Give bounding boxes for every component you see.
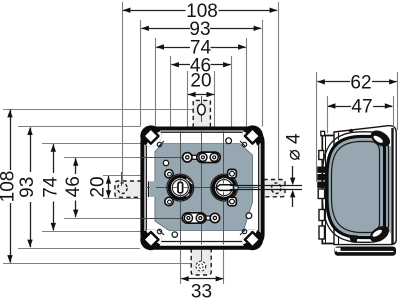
- pilot hole left: [163, 160, 168, 165]
- dimension 33 extension lines: [180, 250, 182, 284]
- left gland center line vertical: [180, 131, 182, 245]
- left cable entry center line: [121, 172, 123, 186]
- side view lid screw top-right: [368, 127, 393, 150]
- corner detail marks: [158, 141, 164, 147]
- left gland slot: [178, 182, 183, 192]
- top cable entry knockout ellipse: [198, 104, 206, 115]
- dimension 62 extension lines: [316, 72, 318, 182]
- left gland center line segments: [180, 178, 182, 182]
- svg-text:74: 74: [41, 176, 62, 198]
- right gland center line segments: [223, 177, 225, 184]
- front view lid recess (gray): [155, 144, 253, 231]
- svg-text:⌀ 4: ⌀ 4: [284, 133, 305, 161]
- side view wall tabs (black): [317, 167, 326, 173]
- dimension 46 top extension lines: [170, 56, 172, 127]
- dimension 74 left extension lines: [42, 143, 155, 145]
- pilot hole top-right: [226, 138, 232, 144]
- side view dome bottom clamp: [348, 235, 358, 244]
- dimension 20 left line and arrows: [108, 176, 110, 198]
- side view lid screw bottom-right: [367, 223, 392, 246]
- pilot hole bottom-right: [246, 213, 252, 219]
- bottom cable entry dashed rectangle: [191, 249, 211, 276]
- gland center line horizontal: [146, 187, 259, 189]
- side view lid right edge: [391, 128, 393, 244]
- dimension 108 left line and arrows: [10, 110, 12, 170]
- right gland knockout ring: [211, 174, 238, 201]
- knockout row reference lines: [141, 157, 183, 159]
- side view lid outer rim: [334, 126, 396, 245]
- corner screw housings: [140, 125, 161, 146]
- dimension 46 left extension lines: [64, 157, 182, 159]
- side view lid dome (gray): [326, 139, 391, 236]
- entry center line vertical through box: [201, 131, 203, 245]
- pilot hole bottom-left: [172, 232, 177, 237]
- top cable entry dashed rectangle: [193, 100, 210, 127]
- dimension 47 extension lines: [327, 96, 329, 133]
- svg-text:47: 47: [351, 97, 372, 118]
- top knockout cluster: [186, 155, 198, 159]
- svg-text:20: 20: [88, 176, 109, 197]
- svg-text:93: 93: [17, 177, 38, 198]
- dimension 74 top line and arrows: [156, 47, 190, 49]
- right gland center line vertical: [223, 131, 225, 245]
- dimension 93 left line and arrows: [30, 127, 32, 172]
- top cable entry center line: [201, 96, 203, 122]
- left entry groove notch in recess: [150, 181, 157, 197]
- slot edge lines to diameter-4 callout: [230, 185, 302, 187]
- dimension 93 top line and arrows: [141, 28, 190, 30]
- front view outer wall: [142, 129, 262, 248]
- svg-text:46: 46: [63, 176, 84, 197]
- svg-text:33: 33: [191, 282, 212, 302]
- side view dome outer contour: [323, 132, 389, 243]
- side view mounting tab bottom: [319, 226, 325, 239]
- dimension 74 left line and arrows: [53, 144, 55, 173]
- dimension 33 line and arrows: [181, 278, 223, 280]
- svg-text:20: 20: [190, 71, 211, 92]
- dimension 46 left line and arrows: [75, 158, 77, 174]
- right gland slot with pointed end: [216, 185, 234, 191]
- bottom cable entry center line: [201, 250, 203, 261]
- dimension 74 top extension lines: [155, 38, 157, 127]
- right gland screws: [228, 169, 237, 178]
- corner screw caps: [143, 128, 158, 143]
- left gland screws: [165, 170, 173, 178]
- front view lid inner edge: [146, 132, 258, 241]
- dimension 20 top extension lines: [187, 71, 189, 127]
- dimension 20 left extension lines: [103, 175, 142, 177]
- dimension 93 top extension lines: [140, 20, 142, 127]
- right cable entry dashed rectangle: [263, 180, 285, 197]
- side view mounting tab middle: [319, 210, 325, 221]
- side view base/lid seam bottom: [338, 236, 340, 244]
- dimension 93 left extension lines: [18, 126, 140, 128]
- dimension 20 top line and arrows: [188, 94, 214, 96]
- side view dome inner contour: [332, 142, 380, 233]
- left gland knockout ring: [167, 174, 194, 201]
- side view bottom flange: [335, 247, 397, 256]
- dimension 62 line and arrows: [317, 81, 350, 83]
- dimension 47 line and arrows: [328, 106, 351, 108]
- right cable entry knockout dashed ellipse: [272, 183, 281, 194]
- svg-text:108: 108: [0, 171, 19, 203]
- bottom cable entry knockout circles: [196, 261, 206, 271]
- bottom knockout cluster: [204, 216, 216, 220]
- dimension 46 top line and arrows: [171, 64, 190, 66]
- left cable entry knockout dashed ellipse: [118, 183, 127, 194]
- left cable entry dashed rectangle: [115, 181, 142, 197]
- side view dome ridge: [327, 137, 385, 238]
- diameter 4 arrows: [292, 166, 294, 178]
- svg-text:62: 62: [350, 72, 371, 93]
- dimension 108 top line and arrows: [123, 10, 186, 12]
- side view mounting tab top: [319, 151, 324, 160]
- dimension 108 top extension lines: [122, 2, 124, 183]
- dimension 108 left extension lines: [3, 109, 198, 111]
- side view base body: [322, 136, 334, 244]
- side view arc knot at top edge: [349, 129, 354, 133]
- side view base/lid seam top: [338, 133, 340, 141]
